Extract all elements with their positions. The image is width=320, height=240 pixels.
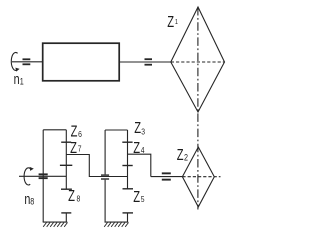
svg-text:Z: Z [177,146,184,163]
bearing B4 in left wall [39,173,48,179]
bearing B3 near Z2 [162,172,171,180]
gear tick bottom left with support [61,213,71,222]
label Z6 [71,123,82,140]
frame top bar left [43,129,66,131]
svg-text:1: 1 [20,77,24,87]
frame wall right (interrupted at bearing) [104,130,106,222]
svg-text:Z: Z [167,13,174,30]
ground hatching left [43,223,67,227]
svg-text:Z: Z [71,123,78,140]
label Z1 [167,13,178,30]
gear tick Z3 [122,141,132,143]
svg-text:Z: Z [68,187,75,204]
svg-text:Z: Z [134,119,141,136]
ground line right [105,221,129,223]
ground line left [43,221,68,223]
svg-text:n: n [24,190,30,207]
gear tick Z5 [123,188,134,190]
gear shaft line right (Z3 Z4 Z5) [127,130,129,189]
label n1 [14,70,25,87]
svg-text:Z: Z [70,139,77,156]
label n8 [24,190,34,207]
bearing B2 [145,58,153,65]
label Z3 [134,119,145,136]
svg-text:5: 5 [141,194,145,204]
centerline dashed horizontal Z2 [182,176,220,178]
centerline dashed horizontal Z1 [171,61,225,63]
svg-text:1: 1 [175,19,179,27]
svg-text:7: 7 [78,144,82,154]
bevel gear Z2 (diamond) [182,147,214,207]
bevel gear Z1 (diamond) [171,7,225,112]
svg-text:Z: Z [133,188,140,205]
svg-text:n: n [14,70,20,87]
wire: shaft III to Z2 [151,176,183,178]
svg-text:2: 2 [184,153,188,163]
rotation arrow n1 [11,52,19,71]
gear tick Z8 [61,188,72,190]
wire: stepped shaft II from Z7 to right group [66,155,127,177]
gear tick Z6 [61,141,71,143]
wire: stepped shaft III from Z4 to Z2 [128,154,151,176]
label Z7 [70,139,81,156]
svg-text:6: 6 [78,129,82,139]
wire: input shaft I (n8) [19,175,66,177]
label Z4 [133,139,145,156]
frame top bar right [105,129,127,131]
svg-text:8: 8 [30,197,34,207]
svg-text:8: 8 [77,194,81,204]
gear tick Z7 [60,164,72,166]
rotation arrow n8 [24,167,34,185]
bearing B5 in right wall [101,175,109,179]
wire: shaft box to bevel gear Z1 [119,61,171,63]
gear tick bottom right with support [123,213,134,222]
ground hatching right [104,223,128,227]
gear shaft line left (Z6 Z7 Z8) [65,130,67,189]
centerline dash-dot vertical axis [197,7,199,210]
label Z5 [133,188,144,205]
frame wall left [42,130,44,222]
label Z8 [68,187,80,204]
wire: input shaft n1 to box [12,61,43,63]
svg-text:3: 3 [141,127,145,137]
gear tick Z4 [122,165,132,167]
machine housing box [43,43,120,81]
bearing B1 on input shaft [23,58,31,65]
label Z2 [177,146,189,163]
